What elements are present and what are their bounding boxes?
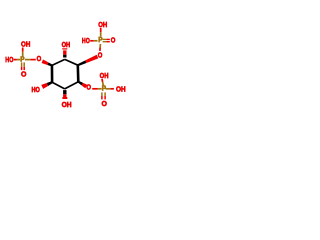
ring bond C1-C2 (65, 59, 78, 65)
bond P2 to OH above (100, 28, 102, 32)
bond P1 to ester O (25, 59, 31, 61)
solid wedge C2 to O link upper right (77, 60, 86, 66)
svg-text:HO: HO (82, 36, 90, 45)
bond P3 to OH right (105, 88, 110, 90)
ring bond C3-C4 (65, 82, 79, 89)
bond HO to P2 (90, 40, 94, 42)
svg-text:OH: OH (62, 100, 72, 109)
svg-text:OH: OH (21, 39, 30, 48)
double bond P2=O right (103, 38, 107, 40)
solid wedge C3 to O link right (78, 81, 83, 86)
bond P1 to OH above (22, 48, 24, 52)
bond P2 down to ester O (99, 44, 101, 48)
bond P3 to OH above (101, 79, 104, 82)
svg-text:HO: HO (32, 85, 40, 94)
bond HO to P1 (14, 59, 17, 61)
svg-text:OH: OH (98, 20, 107, 29)
svg-text:HO: HO (5, 55, 13, 64)
bond ester O to P3 (92, 88, 98, 90)
hashed wedge C4 to bottom OH (63, 90, 66, 94)
svg-text:O: O (102, 99, 108, 108)
svg-text:O: O (111, 35, 116, 44)
svg-text:O: O (98, 50, 103, 59)
hashed wedge C1 to top OH (62, 48, 67, 49)
double bond P3=O down (101, 92, 103, 96)
svg-text:O: O (21, 70, 27, 79)
ring bond C4-C5 (52, 82, 65, 89)
solid wedge C6 to O link left (47, 62, 52, 66)
ring bond C2-C3 bold (77, 65, 80, 82)
solid wedge C5 to HO lower left (47, 81, 53, 86)
ring bond C5-C6 bold (51, 65, 54, 82)
svg-text:OH: OH (116, 85, 126, 94)
svg-text:O: O (86, 83, 91, 92)
svg-text:OH: OH (62, 40, 71, 49)
double bond P1=O down (21, 62, 23, 66)
svg-text:OH: OH (100, 71, 109, 80)
ring bond C6-C1 (52, 59, 65, 65)
svg-text:O: O (37, 54, 42, 63)
